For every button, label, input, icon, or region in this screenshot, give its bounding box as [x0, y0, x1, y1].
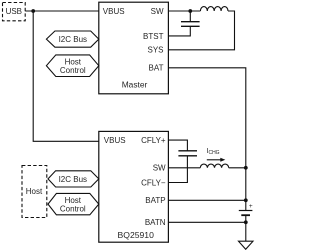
ground [239, 241, 254, 249]
wire SW (BQ25910) to inductor [168, 167, 200, 169]
wire SW (Master) to inductor [168, 10, 200, 12]
host box [22, 166, 47, 218]
wire L1 to SYS rail [168, 11, 234, 50]
svg-text:SYS: SYS [147, 46, 163, 55]
Host Control tag (BQ25910) [48, 193, 99, 214]
node: BATP / rail junction [244, 198, 248, 202]
svg-text:I2C Bus: I2C Bus [59, 35, 87, 44]
svg-text:CFLY+: CFLY+ [141, 136, 166, 145]
svg-text:BATN: BATN [145, 218, 166, 227]
inductor L2 [200, 164, 228, 168]
svg-text:+: + [249, 203, 253, 210]
flying capacitor C_FLY plates [178, 150, 197, 152]
svg-text:Control: Control [60, 66, 86, 75]
svg-text:ICHG: ICHG [207, 148, 220, 156]
svg-text:Master: Master [122, 80, 148, 90]
flying capacitor C_FLY top lead from CFLY+ [168, 140, 187, 151]
svg-text:BQ25910: BQ25910 [118, 230, 155, 240]
I_CHG arrow [207, 159, 221, 161]
svg-text:I2C Bus: I2C Bus [59, 175, 87, 184]
svg-text:SW: SW [153, 164, 166, 173]
svg-text:BTST: BTST [143, 32, 164, 41]
svg-text:Control: Control [60, 204, 86, 213]
node: BATN / rail junction [244, 220, 248, 224]
master charger block U1 [99, 2, 169, 94]
svg-text:BAT: BAT [149, 64, 164, 73]
battery BT1 positive plate [239, 210, 253, 212]
wire VBUS junction down to BQ25910 VBUS [33, 11, 99, 141]
svg-text:VBUS: VBUS [104, 136, 126, 145]
node: USB/VBUS junction [31, 9, 35, 13]
wire USB to VBUS of Master [25, 10, 99, 12]
capacitor C_BTST bottom lead / wire to BTST [168, 26, 190, 36]
node: SW bootstrap junction [188, 9, 192, 13]
I2C Bus tag (BQ25910) [48, 171, 99, 187]
I2C Bus tag (Master) [46, 31, 98, 47]
svg-text:VBUS: VBUS [103, 7, 125, 16]
BQ25910 block U2 [99, 131, 169, 242]
flying capacitor C_FLY bottom lead to CFLY- [168, 156, 187, 183]
inductor L1 [200, 7, 228, 11]
svg-text:USB: USB [6, 7, 22, 16]
wire BATN to rail [168, 221, 245, 223]
node: L2 / rail junction [244, 166, 248, 170]
battery BT1 bottom lead [245, 215, 247, 241]
wire BAT to battery rail [168, 68, 245, 211]
battery BT1 negative plate [241, 214, 250, 216]
svg-text:Host: Host [26, 187, 43, 196]
USB connector box [3, 3, 26, 21]
wire L2 to battery rail [229, 167, 246, 169]
capacitor C_BTST plates [181, 21, 200, 23]
svg-text:CFLY−: CFLY− [141, 178, 166, 187]
svg-text:SW: SW [151, 7, 164, 16]
svg-text:BATP: BATP [145, 196, 165, 205]
wire BATP to rail [168, 199, 245, 201]
Host Control tag (Master) [46, 55, 98, 77]
capacitor C_BTST top lead [189, 11, 191, 22]
